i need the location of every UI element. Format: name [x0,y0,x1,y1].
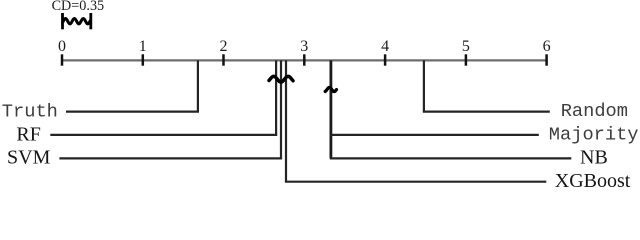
svg-text:NB: NB [580,147,608,169]
svg-text:Majority: Majority [549,124,639,146]
svg-text:RF: RF [16,123,40,145]
XGBoost connector vertical [285,60,287,181]
RF connector vertical [275,60,277,134]
svg-text:6: 6 [543,38,551,55]
svg-text:Truth: Truth [2,101,58,123]
svg-text:1: 1 [139,38,147,55]
Random connector horizontal [423,110,550,112]
Majority connector horizontal [330,134,539,136]
svg-text:0: 0 [58,38,66,55]
axis tick 0 [61,54,64,65]
CD bar wavy line [63,19,91,24]
SVM connector vertical [280,60,282,158]
CD bar right cap [89,13,92,29]
Truth connector vertical [197,60,199,111]
svg-text:SVM: SVM [7,146,51,168]
svg-text:Random: Random [561,100,628,122]
svg-text:3: 3 [300,38,308,55]
NB and Majority shared vertical [329,60,332,158]
axis tick 3 [303,54,306,65]
svg-text:CD=0.35: CD=0.35 [52,0,105,14]
axis line [62,59,547,61]
CD bar left cap [61,13,64,29]
axis tick 2 [222,54,225,65]
svg-text:XGBoost: XGBoost [555,170,631,191]
XGBoost connector horizontal [285,181,546,183]
Truth connector horizontal [66,110,199,112]
NB connector horizontal [330,157,572,159]
svg-text:5: 5 [462,38,470,55]
SVM connector horizontal [59,157,282,159]
svg-text:2: 2 [220,38,228,55]
axis tick 5 [465,54,468,65]
clique wavy bar NB-Majority [325,87,336,91]
axis tick 4 [384,54,387,65]
axis tick 1 [142,54,145,65]
RF connector horizontal [50,134,277,136]
axis tick 6 [545,54,548,65]
clique wavy bar RF-SVM-XGBoost [269,76,293,82]
svg-text:4: 4 [381,38,389,55]
Random connector vertical [423,60,425,111]
